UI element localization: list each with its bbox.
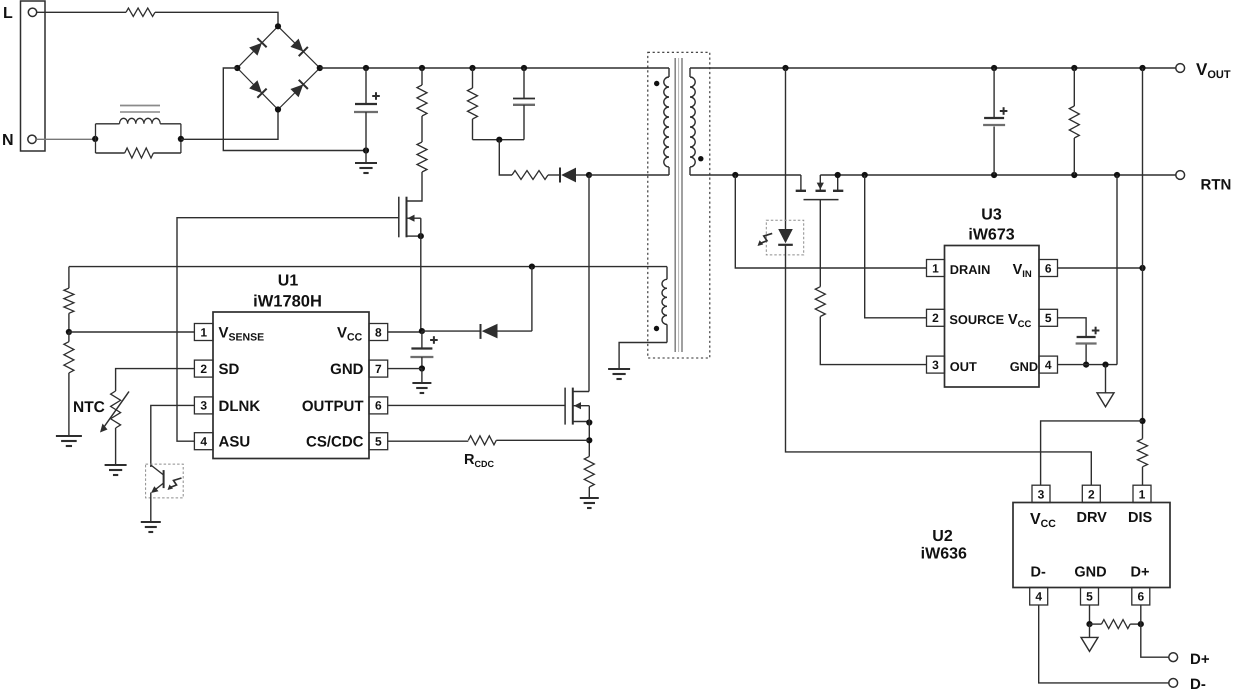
resistor R7 current sense bbox=[584, 456, 594, 487]
bridge rectifier BR1 outline bbox=[237, 26, 319, 109]
wire OUTPUT to Q2 gate bbox=[388, 404, 565, 406]
transformer core bbox=[674, 58, 676, 352]
svg-text:1: 1 bbox=[200, 325, 207, 339]
bridge diode D2 (top-right) bbox=[290, 39, 303, 52]
capacitor C5 output bbox=[993, 68, 995, 118]
svg-text:U1: U1 bbox=[278, 273, 299, 290]
svg-text:CS/CDC: CS/CDC bbox=[306, 434, 364, 451]
wire D6 to aux line bbox=[531, 267, 533, 332]
IC U3 body bbox=[945, 246, 1040, 388]
svg-text:2: 2 bbox=[932, 311, 939, 325]
svg-text:8: 8 bbox=[375, 325, 382, 339]
wire pin7 to node bbox=[388, 368, 422, 370]
node C4 bottom bbox=[1083, 362, 1089, 368]
node primary switch drain bbox=[586, 172, 592, 178]
svg-text:U3: U3 bbox=[981, 207, 1002, 224]
svg-text:GND: GND bbox=[330, 361, 364, 378]
auxiliary winding bbox=[666, 267, 668, 280]
fusible resistor RF1 bbox=[126, 8, 155, 16]
U1 pin 2 box bbox=[194, 360, 213, 377]
U3 pin 4 box bbox=[1039, 356, 1058, 373]
terminal D- bbox=[1169, 679, 1178, 688]
svg-text:2: 2 bbox=[200, 362, 207, 376]
U3 pin 6 box bbox=[1039, 260, 1058, 277]
secondary winding bbox=[689, 68, 691, 77]
resistor RCDC bbox=[387, 440, 389, 442]
node snubber R top bbox=[469, 65, 475, 71]
wire to triangle ground U2 bbox=[1089, 624, 1091, 637]
ground U3 (signal) bbox=[1097, 393, 1114, 407]
node GND pulldown bbox=[1086, 621, 1092, 627]
node bridge right bbox=[317, 65, 323, 71]
wire aux to ground bbox=[619, 343, 667, 370]
svg-text:DRV: DRV bbox=[1077, 510, 1108, 526]
node sec return bbox=[732, 172, 738, 178]
node bulk cap bottom bbox=[363, 147, 369, 153]
U1 pin 4 box bbox=[194, 433, 213, 450]
node D+ resistor bbox=[1138, 621, 1144, 627]
svg-text:iW636: iW636 bbox=[921, 546, 967, 563]
wire VSENSE to pin1 bbox=[69, 331, 194, 333]
U1 pin 6 box bbox=[369, 397, 388, 414]
ground U2 (signal) bbox=[1081, 637, 1098, 651]
svg-text:4: 4 bbox=[1035, 590, 1042, 604]
svg-text:6: 6 bbox=[1137, 590, 1144, 604]
node snubber bottom bbox=[496, 137, 502, 143]
wire VOUT drop line bbox=[1142, 68, 1144, 439]
ground aux winding bbox=[608, 368, 630, 370]
svg-text:D-: D- bbox=[1031, 565, 1046, 581]
capacitor C4 U3 VCC bbox=[1077, 336, 1096, 338]
IC U1 body bbox=[213, 312, 369, 459]
node snubber C top bbox=[521, 65, 527, 71]
auxiliary phase dot bbox=[654, 326, 659, 331]
wire snubber to clamp bbox=[499, 140, 512, 175]
node U3 gnd tap bbox=[1114, 172, 1120, 178]
svg-text:6: 6 bbox=[375, 399, 382, 413]
node choke right bbox=[178, 136, 184, 142]
node VSENSE bbox=[66, 329, 72, 335]
wire to U1 ground bbox=[421, 369, 423, 384]
ground divider bbox=[56, 435, 82, 437]
wire D+ out bbox=[1141, 605, 1169, 657]
wire Q1 gate to ASU bbox=[177, 218, 399, 442]
node CS bbox=[586, 437, 592, 443]
wire fuse to bridge top bbox=[155, 12, 278, 26]
terminal D+ bbox=[1169, 653, 1178, 662]
sync MOSFET Q3 bbox=[800, 175, 802, 191]
wire DLNK to opto bbox=[151, 405, 195, 467]
node output cap top bbox=[991, 65, 997, 71]
wire HV bus bbox=[320, 67, 669, 69]
U2 pin 4 box bbox=[1030, 588, 1048, 606]
thermistor NTC bbox=[111, 391, 121, 428]
primary phase dot bbox=[654, 81, 659, 86]
node bridge bottom bbox=[275, 106, 281, 112]
IC U2 body bbox=[1013, 503, 1170, 588]
node Q1 source bbox=[418, 233, 424, 239]
wire choke to bridge bottom bbox=[181, 110, 278, 140]
svg-text:OUTPUT: OUTPUT bbox=[302, 398, 364, 415]
wire L to fuse bbox=[37, 11, 126, 13]
wire drain node to primary bottom bbox=[589, 174, 669, 176]
main MOSFET Q2 bbox=[564, 388, 566, 425]
wire drain vertical bbox=[588, 175, 590, 392]
wire NTC to ground bbox=[115, 428, 117, 465]
resistor R1 startup upper bbox=[421, 68, 423, 85]
svg-text:SD: SD bbox=[219, 361, 240, 378]
node bridge top bbox=[275, 23, 281, 29]
wire bridge left to primary return rail bbox=[223, 68, 366, 151]
secondary phase dot bbox=[698, 156, 703, 161]
U3 pin 3 box bbox=[927, 356, 945, 373]
wire VOUT to opto LED bbox=[785, 68, 787, 229]
wire SD to NTC bbox=[116, 369, 195, 391]
node DIS junction bbox=[1139, 418, 1145, 424]
svg-text:3: 3 bbox=[200, 399, 207, 413]
wire R2 to Q1 drain bbox=[407, 172, 423, 201]
ground current sense bbox=[580, 497, 599, 499]
U1 pin 1 box bbox=[194, 324, 213, 341]
choke core bars bbox=[120, 105, 160, 107]
svg-text:4: 4 bbox=[1045, 358, 1052, 372]
U3 pin 1 box bbox=[927, 260, 945, 277]
terminal L bbox=[28, 8, 36, 16]
node load resistor bottom bbox=[1071, 172, 1077, 178]
wire secondary return left bbox=[690, 174, 801, 176]
U2 pin 1 box bbox=[1133, 485, 1151, 502]
svg-text:OUT: OUT bbox=[950, 359, 977, 374]
wire gnd rail up bbox=[1116, 175, 1118, 365]
U2 pin 3 box bbox=[1032, 485, 1050, 502]
node startup resistor top bbox=[419, 65, 425, 71]
ground opto bbox=[141, 521, 161, 523]
svg-text:7: 7 bbox=[375, 362, 382, 376]
svg-text:2: 2 bbox=[1088, 487, 1095, 501]
resistor R11 D+ pulldown bbox=[1090, 623, 1102, 625]
svg-text:D+: D+ bbox=[1131, 565, 1150, 581]
common-mode choke L1 with damping resistor R0 bbox=[95, 124, 97, 153]
svg-text:5: 5 bbox=[375, 435, 382, 449]
U2 pin 5 box bbox=[1081, 588, 1099, 606]
node opto LED tap bbox=[782, 65, 788, 71]
svg-text:U2: U2 bbox=[932, 528, 953, 545]
svg-text:iW673: iW673 bbox=[968, 227, 1014, 244]
bulk capacitor C1 bbox=[365, 68, 367, 104]
svg-text:4: 4 bbox=[200, 435, 207, 449]
svg-text:5: 5 bbox=[1086, 590, 1093, 604]
wire VCC U2 bbox=[1041, 421, 1143, 485]
wire opto LED to DRV bbox=[786, 245, 1092, 485]
node VIN drop top bbox=[1139, 65, 1145, 71]
node VIN bbox=[1139, 265, 1145, 271]
node Q2 source bbox=[586, 419, 592, 425]
svg-text:3: 3 bbox=[1038, 487, 1045, 501]
node U3 gnd triangle bbox=[1102, 362, 1108, 368]
U1 pin 5 box bbox=[369, 433, 388, 450]
svg-text:3: 3 bbox=[932, 358, 939, 372]
node GND pin7 bbox=[419, 365, 425, 371]
bridge diode D1 (left-top) bbox=[249, 43, 262, 56]
wire R1-R2 bbox=[421, 116, 423, 142]
wire N to choke bbox=[36, 138, 95, 140]
diode D6 aux rectifier bbox=[422, 330, 481, 332]
resistor R4 clamp bbox=[512, 171, 548, 180]
primary winding bbox=[668, 68, 670, 77]
wire U3 GND bbox=[1058, 364, 1118, 366]
U1 pin 7 box bbox=[369, 360, 388, 377]
startup MOSFET Q1 bbox=[398, 197, 400, 238]
resistor R6 divider lower bbox=[68, 332, 70, 342]
capacitor C3 VCC bbox=[421, 331, 423, 348]
node Q3 source bbox=[835, 172, 841, 178]
resistor R3 snubber bbox=[472, 68, 474, 88]
U1 pin 3 box bbox=[194, 397, 213, 414]
terminal N bbox=[28, 135, 36, 143]
U2 pin 6 box bbox=[1132, 588, 1150, 606]
node choke left bbox=[92, 136, 98, 142]
wire R7 to ground bbox=[588, 487, 590, 498]
resistor R2 startup lower bbox=[417, 142, 427, 172]
svg-text:D+: D+ bbox=[1190, 651, 1210, 668]
svg-text:iW1780H: iW1780H bbox=[253, 293, 322, 311]
wire RTN rail bbox=[820, 174, 1176, 176]
resistor R8 gate bbox=[815, 287, 825, 317]
terminal VOUT bbox=[1176, 64, 1185, 73]
wire pin8 to VCC node bbox=[388, 331, 422, 333]
opto light arrow into U4B bbox=[170, 478, 182, 488]
node load resistor top bbox=[1071, 65, 1077, 71]
diode D5 clamp bbox=[559, 168, 561, 183]
wire D- out bbox=[1039, 605, 1169, 683]
svg-text:NTC: NTC bbox=[73, 399, 105, 416]
svg-text:DRAIN: DRAIN bbox=[950, 262, 991, 277]
terminal block J1 bbox=[21, 1, 46, 151]
transformer T1 dashed box bbox=[648, 52, 710, 358]
node output cap bottom bbox=[991, 172, 997, 178]
wire snubber junction bbox=[473, 139, 525, 141]
svg-text:5: 5 bbox=[1045, 311, 1052, 325]
resistor across choke bbox=[96, 152, 125, 154]
svg-text:N: N bbox=[2, 132, 14, 149]
svg-text:DIS: DIS bbox=[1128, 510, 1153, 526]
ground NTC bbox=[105, 464, 127, 466]
ground primary bulk bbox=[365, 151, 367, 164]
svg-text:1: 1 bbox=[1139, 487, 1146, 501]
wire Q2 source down bbox=[588, 406, 590, 457]
wire R6 to ground bbox=[68, 373, 70, 436]
svg-text:GND: GND bbox=[1074, 565, 1106, 581]
U3 pin 5 box bbox=[1039, 309, 1058, 326]
terminal RTN bbox=[1176, 171, 1185, 180]
svg-text:D-: D- bbox=[1190, 676, 1206, 693]
svg-text:ASU: ASU bbox=[219, 434, 251, 451]
wire VIN to VOUT drop bbox=[1058, 267, 1143, 269]
svg-text:GND: GND bbox=[1010, 359, 1038, 374]
wire opto emitter to ground bbox=[150, 493, 152, 523]
resistor R5 divider upper bbox=[64, 288, 74, 313]
wire to triangle ground bbox=[1105, 365, 1107, 393]
wire drain sense to U3 bbox=[735, 175, 926, 268]
node VCC bbox=[419, 328, 425, 334]
U2 pin 2 box bbox=[1082, 485, 1100, 502]
svg-text:1: 1 bbox=[932, 261, 939, 275]
svg-text:6: 6 bbox=[1045, 261, 1052, 275]
wire GND pin down bbox=[1089, 605, 1091, 624]
svg-text:RTN: RTN bbox=[1201, 177, 1232, 194]
wire VOUT rail bbox=[690, 67, 1176, 69]
optocoupler LED U4A bbox=[766, 220, 803, 255]
node HV cap bbox=[363, 65, 369, 71]
U1 pin 8 box bbox=[369, 324, 388, 341]
wire R4 to D5 bbox=[548, 174, 560, 176]
svg-text:DLNK: DLNK bbox=[219, 398, 261, 415]
wire Q1 source to VCC node bbox=[420, 218, 422, 331]
ground U1 VCC bbox=[412, 382, 431, 384]
optocoupler transistor U4B bbox=[146, 464, 184, 498]
wire U3 VCC bbox=[1058, 318, 1087, 337]
bridge diode D3 (left-bottom) bbox=[249, 80, 262, 93]
wire R8 to U3 OUT bbox=[820, 317, 926, 365]
opto light arrow from U4A bbox=[760, 233, 772, 243]
wire source sense to U3 bbox=[865, 175, 927, 318]
resistor R9 load bbox=[1073, 68, 1075, 106]
resistor R10 DIS bbox=[1138, 439, 1148, 467]
node bridge left bbox=[234, 65, 240, 71]
wire R10 to DIS pin bbox=[1142, 467, 1144, 485]
wire Q3 gate bbox=[819, 200, 821, 287]
node U3 source tap bbox=[862, 172, 868, 178]
svg-text:L: L bbox=[3, 5, 13, 22]
U3 pin 2 box bbox=[927, 309, 945, 326]
node VCC diode tap bbox=[529, 264, 535, 270]
capacitor C2 snubber bbox=[523, 68, 525, 99]
bridge diode D4 (bottom-right) bbox=[290, 84, 303, 97]
wire aux line corner to divider bbox=[68, 267, 70, 289]
svg-text:SOURCE: SOURCE bbox=[949, 312, 1004, 327]
wire aux sense line bbox=[69, 266, 667, 268]
